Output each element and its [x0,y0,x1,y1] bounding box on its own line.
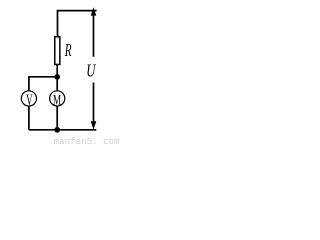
wire middle branch to voltmeter [29,77,57,91]
node A junction dot [54,74,60,80]
voltmeter V [21,91,36,106]
svg-text:R: R [64,41,72,60]
wire motor bottom lead [56,106,58,130]
node B junction dot [54,127,60,133]
wire top rail [58,11,97,36]
motor M [50,91,65,106]
svg-text:V: V [26,90,33,109]
wire bottom rail [29,129,96,131]
resistor R [55,37,60,65]
wire motor top lead [56,77,58,91]
svg-text:M: M [53,91,61,108]
svg-text:U: U [86,62,97,82]
voltage arrow U lower segment with down arrowhead [93,83,95,124]
wire voltmeter bottom lead [28,106,30,130]
voltage arrow U upper segment with up arrowhead [93,13,95,57]
wire resistor bottom lead [56,65,58,77]
svg-text:manfen5. com: manfen5. com [54,136,121,146]
